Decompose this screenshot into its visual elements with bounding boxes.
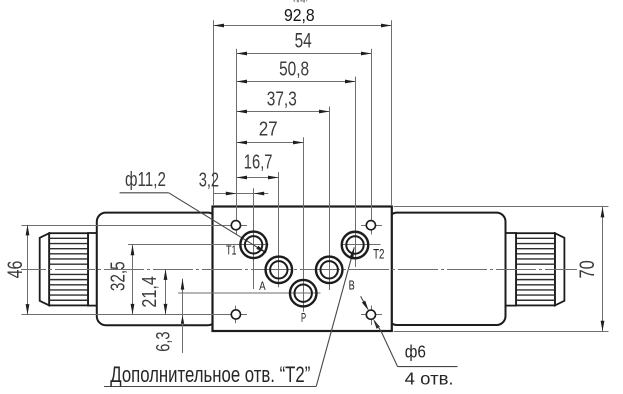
svg-text:54: 54 <box>295 29 312 52</box>
svg-text:T2: T2 <box>373 246 384 261</box>
svg-text:4 отв.: 4 отв. <box>405 369 454 389</box>
svg-text:16,7: 16,7 <box>244 151 273 174</box>
svg-text:P: P <box>301 310 306 325</box>
svg-text:B: B <box>349 277 355 292</box>
svg-text:70: 70 <box>576 260 599 278</box>
svg-text:21,4: 21,4 <box>139 276 161 307</box>
svg-text:Дополнительное отв. “Т2”: Дополнительное отв. “Т2” <box>110 362 310 387</box>
svg-text:46: 46 <box>4 261 27 279</box>
svg-text:92,8: 92,8 <box>284 5 315 25</box>
svg-text:27: 27 <box>259 118 278 141</box>
svg-text:T1: T1 <box>226 243 237 257</box>
svg-text:ф11,2: ф11,2 <box>125 169 166 191</box>
svg-text:50,8: 50,8 <box>279 58 309 81</box>
svg-text:A: A <box>259 279 266 293</box>
svg-text:37,3: 37,3 <box>267 88 297 111</box>
svg-text:6,3: 6,3 <box>153 332 174 352</box>
svg-text:ф6: ф6 <box>405 342 426 362</box>
svg-text:32,5: 32,5 <box>108 261 130 291</box>
svg-text:3,2: 3,2 <box>199 169 219 192</box>
